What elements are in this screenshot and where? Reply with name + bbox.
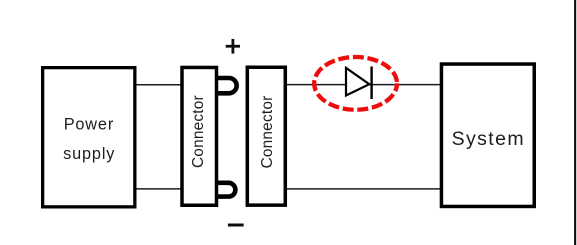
svg-text:Connector: Connector [259, 96, 276, 169]
plug symbol bottom (between connectors) [216, 183, 236, 197]
connector U2 box (right) [247, 67, 285, 205]
system box [441, 64, 534, 206]
svg-text:Power: Power [64, 116, 114, 134]
svg-text:Connector: Connector [190, 95, 207, 168]
minus sign (negative terminal) [228, 224, 244, 227]
svg-text:System: System [452, 128, 525, 150]
plus sign (positive terminal) [226, 39, 240, 54]
wire: power supply to connector1, negative (bottom) [135, 188, 183, 190]
power supply box [43, 68, 135, 207]
red dashed highlight ellipse around diode [314, 57, 397, 110]
wire: connector2 to system, positive (top), passes through diode [286, 84, 441, 86]
connector U1 box (left) [182, 67, 217, 205]
svg-text:supply: supply [63, 145, 115, 163]
plug symbol top (between connectors) [216, 78, 237, 93]
right page-edge line [574, 0, 576, 245]
wire: connector2 to system, negative (bottom) [286, 188, 441, 190]
diode D1 triangle (anode) [346, 68, 369, 96]
wire: power supply to connector1, positive (top) [135, 84, 183, 86]
diode D1 cathode bar [370, 67, 372, 100]
